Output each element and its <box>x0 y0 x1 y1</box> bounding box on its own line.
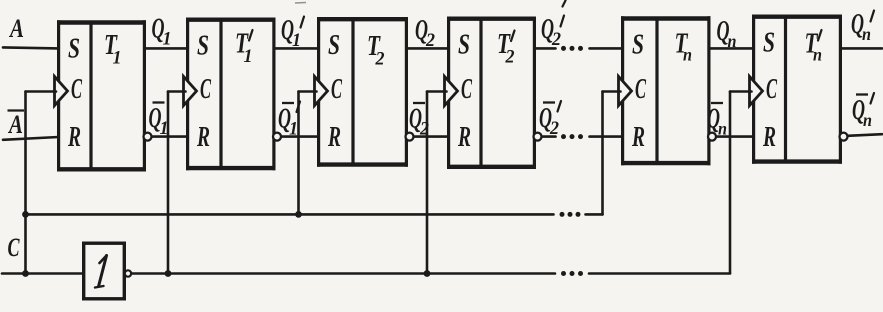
label T2 <box>367 30 385 70</box>
svg-text:S: S <box>328 30 340 61</box>
svg-text:S: S <box>458 30 470 61</box>
inverted output bubble of T1 <box>144 133 152 141</box>
clock edge triangle of T2' <box>445 76 458 105</box>
wire C stub to T2 clock <box>299 90 317 93</box>
node Qn'-bar label <box>852 93 874 130</box>
svg-text:n: n <box>863 110 872 130</box>
wire Qn'-bar output <box>848 134 883 136</box>
clock edge triangle of T1' <box>184 76 197 105</box>
wire C stub to T1 clock <box>26 90 57 93</box>
ellipsis on Q2'-bar line <box>561 134 583 139</box>
wire Q2-bar to R of T2' <box>414 135 449 138</box>
wire riser inverted clock to T1' <box>167 92 170 274</box>
inverted output bubble of T2' <box>534 133 542 141</box>
wire C stub to Tn' clock <box>730 90 752 93</box>
inverted output bubble of Tn <box>708 133 716 141</box>
svg-text:S: S <box>68 33 80 64</box>
wire riser clock bus to Tn <box>601 92 604 215</box>
node A-bar label <box>7 110 24 139</box>
wire riser clock bus to T2 <box>297 92 300 215</box>
node Q1 label <box>152 14 172 50</box>
svg-text:R: R <box>631 122 645 153</box>
node Q1'-bar label <box>278 102 300 140</box>
svg-text:R: R <box>762 122 776 153</box>
svg-text:2: 2 <box>505 47 515 68</box>
label T1 <box>104 29 122 69</box>
node Q2 label <box>415 15 435 51</box>
flip-flop Tn' box <box>752 15 842 164</box>
svg-text:A: A <box>8 14 24 43</box>
clock edge triangle of T1 <box>55 76 68 105</box>
svg-text:R: R <box>196 122 210 153</box>
ellipsis on upper clock bus <box>560 212 581 217</box>
svg-text:C: C <box>766 74 777 105</box>
node Q2' label <box>541 14 564 50</box>
svg-text:1: 1 <box>113 48 122 69</box>
inverter U1 output bubble <box>125 270 131 276</box>
wire Qn to S of Tn' <box>710 47 754 50</box>
flip-flop T1' box <box>186 18 276 171</box>
wire inverted clock bus right segment <box>589 272 730 275</box>
clock edge triangle of T2 <box>315 76 328 105</box>
label T2' <box>497 28 515 68</box>
flip-flop T2 box <box>317 17 408 167</box>
node Q1' label <box>281 15 304 51</box>
wire Qn-bar to R of Tn' <box>717 135 754 138</box>
wire inverted clock bus <box>131 272 555 275</box>
ellipsis on inverted clock bus <box>561 271 583 276</box>
artifact smudge top edge <box>295 2 306 5</box>
label Tn' <box>805 28 823 65</box>
junction C input / riser <box>22 270 29 277</box>
svg-text:C: C <box>71 74 82 105</box>
svg-text:A: A <box>7 110 23 139</box>
node Q2-bar label <box>409 103 429 140</box>
svg-text:S: S <box>197 31 209 62</box>
wire C stub to T1' clock <box>168 90 186 93</box>
junction inverted bus / T2' riser <box>424 270 431 277</box>
wire Q2 to S of T2' <box>407 47 449 50</box>
flip-flop Tn box <box>621 16 711 165</box>
wire upper clock bus <box>26 213 554 216</box>
label Tn <box>675 28 693 65</box>
flip-flop T1 box <box>57 20 146 171</box>
wire Q1'-bar to R of T2 <box>282 135 319 138</box>
svg-text:C: C <box>635 74 646 105</box>
wire Q1 to S of T1' <box>145 47 188 50</box>
svg-text:R: R <box>327 122 341 153</box>
node Q2'-bar label <box>539 101 561 139</box>
svg-text:C: C <box>331 74 342 105</box>
artifact apostrophe top edge <box>563 1 566 7</box>
node Qn-bar label <box>707 103 727 139</box>
wire A-bar to R of T1 <box>3 137 59 140</box>
svg-text:1: 1 <box>163 29 172 50</box>
wire Q1-bar to R of T1' <box>152 135 188 138</box>
inverter U1 box <box>84 243 125 299</box>
clock edge triangle of Tn <box>619 76 632 105</box>
flip-flop T2' box <box>447 17 536 170</box>
wire C stub to Tn clock <box>603 90 621 93</box>
wire C stub to T2' clock <box>427 90 447 93</box>
svg-text:1: 1 <box>244 46 253 67</box>
node Q1-bar label <box>149 103 169 140</box>
wire into R of Tn <box>590 135 623 138</box>
svg-text:n: n <box>813 45 822 65</box>
wire riser inverted clock to T2' <box>426 92 429 274</box>
wire into S of Tn <box>590 47 623 50</box>
wire Qn' output <box>841 47 882 50</box>
svg-text:n: n <box>683 45 692 65</box>
label T1' <box>235 28 253 68</box>
wire Q2' stub <box>535 47 556 50</box>
svg-text:2: 2 <box>551 29 561 50</box>
wire riser C to T1 clock <box>24 92 27 274</box>
svg-text:S: S <box>763 28 775 59</box>
node Qn' label <box>851 9 874 44</box>
junction inverted bus / T1' riser <box>165 270 172 277</box>
wire riser inverted clock to Tn' <box>729 92 732 274</box>
wire C input segment <box>2 272 84 275</box>
node Qn label <box>717 16 737 51</box>
svg-text:R: R <box>457 122 471 153</box>
svg-text:C: C <box>461 74 472 105</box>
wire upper clock bus right segment <box>586 213 603 216</box>
svg-text:n: n <box>862 24 871 44</box>
inverter U1 label 1 <box>95 256 107 288</box>
wire Q1' to S of T2 <box>275 47 319 50</box>
inverted output bubble of T1' <box>273 133 281 141</box>
svg-text:S: S <box>632 29 644 60</box>
svg-text:R: R <box>67 122 81 153</box>
svg-text:C: C <box>8 233 20 262</box>
junction upper bus / T2 riser <box>295 211 302 218</box>
svg-text:2: 2 <box>375 49 385 70</box>
clock edge triangle of Tn' <box>750 76 763 105</box>
ellipsis on Q2' line <box>561 46 583 51</box>
inverted output bubble of T2 <box>406 133 414 141</box>
inverted output bubble of Tn' <box>840 133 848 141</box>
wire A to S of T1 <box>3 47 59 48</box>
svg-text:C: C <box>200 74 211 105</box>
wire Q2'-bar stub <box>542 135 556 138</box>
junction C riser / upper bus <box>22 211 29 218</box>
